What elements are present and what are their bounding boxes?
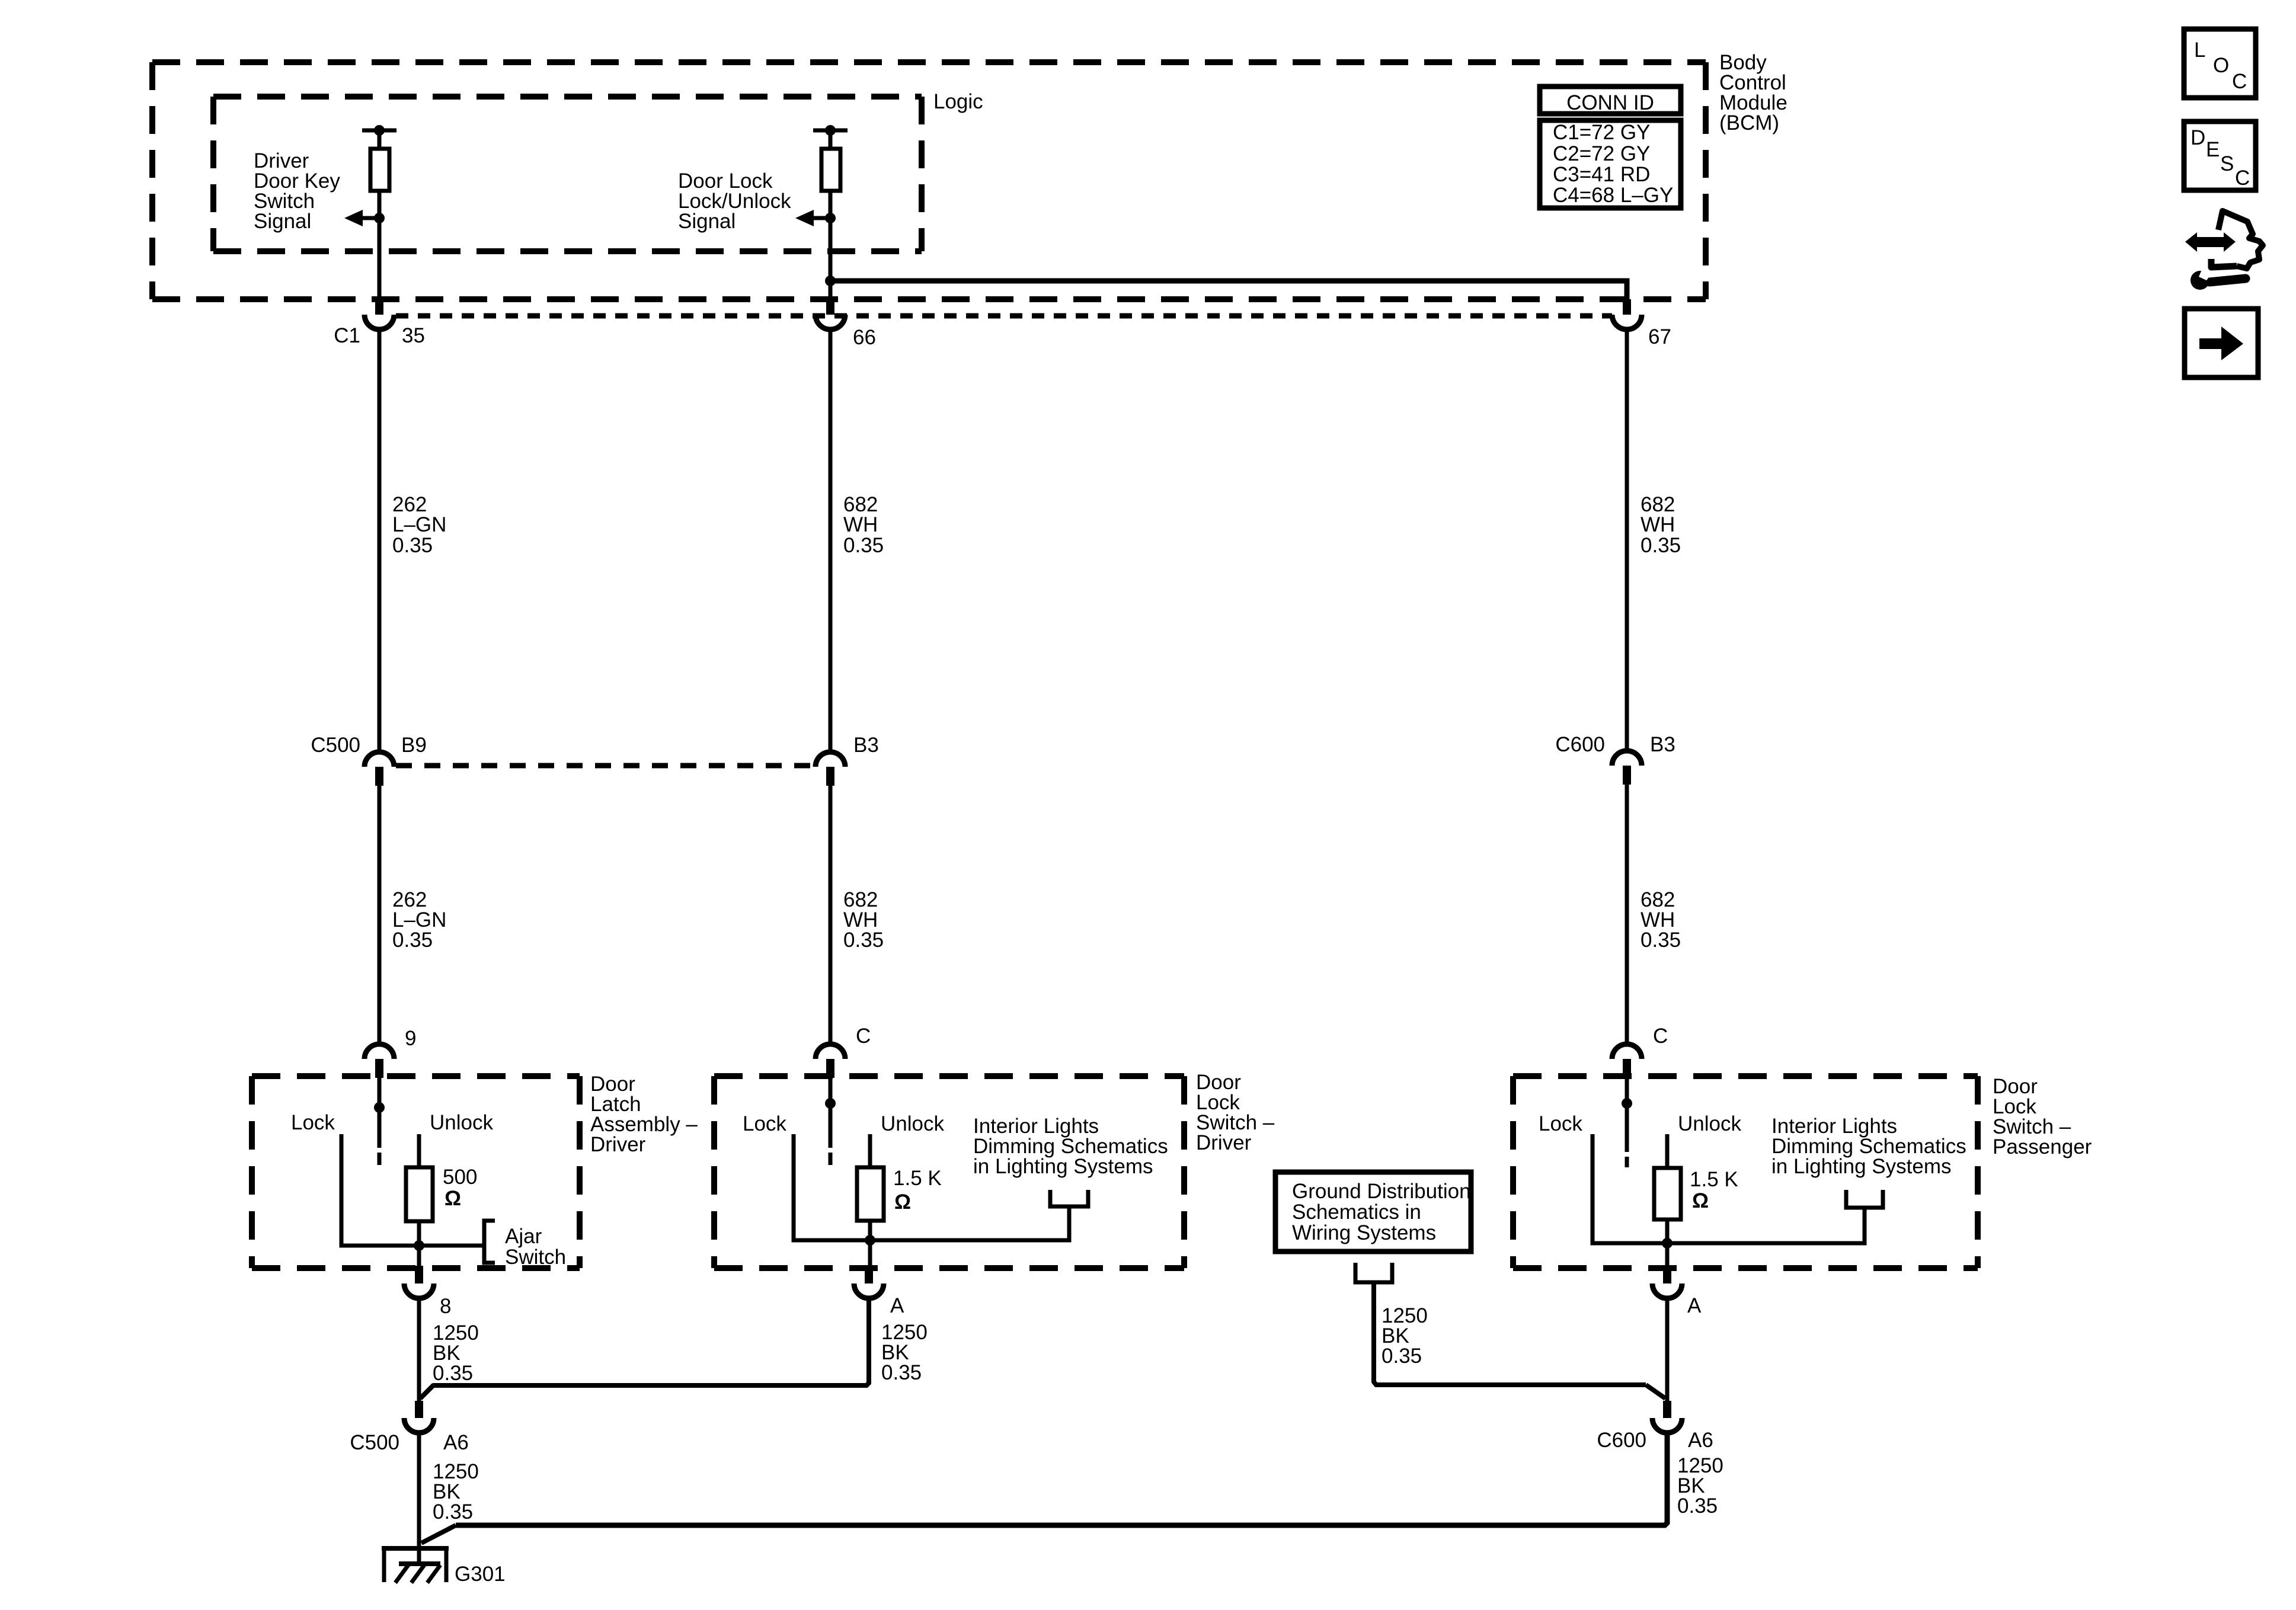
svg-text:Ω: Ω <box>894 1190 911 1214</box>
svg-text:C3=41 RD: C3=41 RD <box>1553 163 1650 186</box>
connector C500 pin A6 <box>404 1401 434 1433</box>
svg-text:Ground Distribution: Ground Distribution <box>1292 1180 1471 1203</box>
svg-text:Driver: Driver <box>1196 1131 1252 1154</box>
svg-text:0.35: 0.35 <box>1382 1345 1422 1368</box>
svg-text:8: 8 <box>440 1295 451 1318</box>
svg-text:67: 67 <box>1648 325 1671 348</box>
wire to pin 67 <box>830 281 1627 302</box>
wire 262 L-GN col1 lower <box>378 786 382 1044</box>
svg-text:A: A <box>1687 1294 1702 1317</box>
label 1.5 K ohm driver <box>893 1167 942 1214</box>
svg-text:C600: C600 <box>1597 1429 1646 1452</box>
connector C600 pin A6 <box>1652 1401 1682 1433</box>
svg-text:Driver: Driver <box>590 1133 646 1156</box>
connector passenger switch pin C <box>1612 1044 1642 1078</box>
resistor in BCM col1 <box>370 149 389 191</box>
svg-text:0.35: 0.35 <box>433 1362 473 1385</box>
switch pole driver door lock <box>825 1078 836 1165</box>
svg-text:9: 9 <box>405 1027 416 1050</box>
wire pin A passenger down <box>1665 1298 1670 1401</box>
switch pole door latch <box>374 1078 385 1165</box>
svg-text:C600: C600 <box>1555 733 1605 756</box>
label wire 262 L-GN 0.35 lower <box>392 888 446 952</box>
svg-text:C500: C500 <box>350 1431 399 1454</box>
svg-text:CONN ID: CONN ID <box>1566 91 1654 114</box>
svg-text:0.35: 0.35 <box>392 534 433 557</box>
wire unlock contact driver <box>868 1134 872 1167</box>
svg-text:Lock: Lock <box>291 1111 335 1134</box>
wire <box>829 191 833 302</box>
wire staple to bus driver <box>870 1206 1069 1240</box>
connector C1 pin 66 <box>816 299 845 329</box>
ground G301 <box>382 1548 449 1583</box>
svg-text:Ω: Ω <box>445 1187 461 1210</box>
wire pin A driver down to bus <box>433 1298 869 1385</box>
connector C500 pin B9 <box>364 752 394 786</box>
svg-text:C1: C1 <box>334 324 360 347</box>
wire diagonal join left bus <box>420 1385 434 1398</box>
icon LOC box <box>2184 29 2256 98</box>
svg-text:Schematics in: Schematics in <box>1292 1201 1421 1224</box>
box Logic inner dashed <box>213 97 922 251</box>
wire 682 WH col2 lower <box>829 786 833 1044</box>
wire resistor to junction passenger <box>1665 1219 1670 1243</box>
svg-text:35: 35 <box>402 324 425 347</box>
wire dotted connector C1 boundary <box>396 313 1612 319</box>
switch S2 door lock top bar <box>813 125 848 136</box>
svg-text:0.35: 0.35 <box>881 1361 922 1384</box>
wire dashed connector C500/B3 boundary <box>396 763 817 769</box>
label Interior Lights Dimming passenger <box>1771 1115 1966 1178</box>
svg-text:B9: B9 <box>401 734 427 757</box>
svg-text:L: L <box>2194 39 2205 62</box>
connector ground distribution staple <box>1355 1263 1392 1282</box>
label wire 682 WH 0.35 col3 upper <box>1641 493 1681 557</box>
svg-text:D: D <box>2191 126 2205 149</box>
svg-text:(BCM): (BCM) <box>1719 111 1779 135</box>
svg-text:0.35: 0.35 <box>1641 929 1681 952</box>
svg-text:in Lighting Systems: in Lighting Systems <box>973 1155 1153 1178</box>
svg-text:0.35: 0.35 <box>1641 534 1681 557</box>
svg-text:0.35: 0.35 <box>433 1500 473 1523</box>
label C500 A6 <box>350 1431 468 1454</box>
svg-text:WH: WH <box>843 513 878 536</box>
node junction driver switch <box>865 1235 875 1246</box>
switch ajar bracket <box>484 1221 495 1263</box>
wire junction to pin 8 <box>417 1246 421 1271</box>
svg-text:0.35: 0.35 <box>843 929 884 952</box>
wire resistor to junction <box>417 1221 421 1246</box>
svg-text:A6: A6 <box>443 1431 469 1454</box>
svg-text:Ω: Ω <box>1692 1189 1709 1212</box>
label Door Lock Switch Passenger <box>1993 1075 2092 1158</box>
node junction col2 arrow <box>825 213 836 223</box>
wire <box>378 130 382 149</box>
node junction col1 arrow <box>374 213 385 223</box>
arrow door lock lock/unlock signal <box>795 210 830 226</box>
label Body Control Module (BCM) <box>1719 51 1787 135</box>
resistor in BCM col2 <box>821 149 840 191</box>
icon wrench and arrow <box>2185 211 2263 290</box>
svg-text:WH: WH <box>1641 513 1675 536</box>
svg-text:C1=72 GY: C1=72 GY <box>1553 121 1650 144</box>
box Door Lock Switch Driver dashed <box>714 1076 1184 1268</box>
svg-text:B3: B3 <box>853 734 879 757</box>
arrow driver door key switch signal <box>344 210 379 226</box>
node junction latch <box>414 1240 424 1251</box>
resistor 1.5K passenger <box>1654 1168 1681 1219</box>
svg-text:1.5 K: 1.5 K <box>893 1167 942 1190</box>
wire 682 WH col2 upper <box>829 329 833 753</box>
connector C1 pin 35 <box>364 299 394 329</box>
label Interior Lights Dimming driver <box>973 1115 1168 1178</box>
connector pin 8 <box>404 1266 434 1298</box>
icon arrow box <box>2185 309 2258 377</box>
label wire 682 WH 0.35 col2 upper <box>843 493 884 557</box>
connector driver switch pin B3 <box>816 752 845 786</box>
label Ajar Switch <box>505 1225 566 1269</box>
label Door Lock Lock/Unlock Signal <box>678 169 791 233</box>
connector C600 pin B3 <box>1612 751 1642 785</box>
svg-text:Unlock: Unlock <box>430 1111 493 1134</box>
svg-text:Lock: Lock <box>1539 1112 1582 1135</box>
node junction col2 to pin 67 <box>825 276 836 286</box>
wire C500 A6 down to ground <box>417 1433 421 1565</box>
svg-text:Signal: Signal <box>678 210 736 233</box>
wire diagonal join ground <box>421 1525 456 1543</box>
svg-text:S: S <box>2220 152 2234 175</box>
table CONN ID <box>1540 87 1681 208</box>
label C600 A6 <box>1597 1429 1713 1452</box>
svg-text:Unlock: Unlock <box>1678 1112 1741 1135</box>
svg-text:C: C <box>1653 1025 1668 1048</box>
svg-text:Unlock: Unlock <box>881 1112 944 1135</box>
svg-text:0.35: 0.35 <box>843 534 884 557</box>
svg-text:0.35: 0.35 <box>392 929 433 952</box>
wire 682 WH col3 lower <box>1625 785 1629 1044</box>
connector door latch pin 9 <box>364 1044 394 1078</box>
label 500 ohm <box>443 1166 477 1210</box>
node junction passenger switch <box>1662 1238 1673 1249</box>
label wire 1250 BK 0.35 below pin A driver <box>881 1321 928 1384</box>
svg-text:O: O <box>2213 54 2229 77</box>
svg-text:C: C <box>2235 167 2250 190</box>
label wire 682 WH 0.35 col3 lower <box>1641 888 1681 952</box>
label Door Latch Assembly Driver <box>590 1073 698 1156</box>
box Door Latch Assembly Driver dashed <box>252 1076 580 1268</box>
wire unlock contact passenger <box>1665 1134 1670 1168</box>
wire <box>829 130 833 149</box>
svg-text:Logic: Logic <box>933 90 983 113</box>
wire junction to ajar switch <box>419 1244 484 1248</box>
wire resistor to junction driver <box>868 1221 872 1240</box>
wire junction to pin A passenger <box>1665 1243 1670 1271</box>
wire staple to bus passenger <box>1667 1208 1865 1243</box>
svg-text:Wiring Systems: Wiring Systems <box>1292 1221 1436 1244</box>
svg-text:Switch: Switch <box>505 1246 566 1269</box>
svg-text:C500: C500 <box>311 734 360 757</box>
connector interior lights driver staple <box>1050 1190 1088 1206</box>
svg-text:G301: G301 <box>455 1563 506 1586</box>
wire lock contact passenger <box>1593 1134 1667 1243</box>
svg-text:Ajar: Ajar <box>505 1225 542 1248</box>
label C1 35 <box>334 324 425 347</box>
icon DESC box <box>2184 121 2256 190</box>
label wire 1250 BK 0.35 below C600 A6 <box>1677 1454 1723 1518</box>
svg-text:Signal: Signal <box>254 210 311 233</box>
label wire 1250 BK 0.35 below C500 A6 <box>433 1460 479 1523</box>
box Body Control Module (BCM) outer dashed <box>152 62 1706 299</box>
connector C1 pin 67 <box>1612 299 1642 329</box>
svg-text:B3: B3 <box>1650 733 1675 756</box>
svg-text:1.5 K: 1.5 K <box>1690 1168 1738 1191</box>
wire lock contact latch <box>341 1134 419 1246</box>
label 1.5 K ohm passenger <box>1690 1168 1738 1212</box>
connector interior lights passenger staple <box>1846 1190 1883 1208</box>
svg-text:C: C <box>2232 70 2247 93</box>
resistor 1.5K driver <box>857 1167 884 1221</box>
wire <box>378 191 382 302</box>
connector pin A passenger <box>1652 1266 1682 1298</box>
wire ground distribution branch <box>1374 1282 1646 1385</box>
wire lock contact driver <box>794 1134 870 1240</box>
svg-text:0.35: 0.35 <box>1677 1494 1718 1518</box>
label wire 1250 BK 0.35 below pin 8 <box>433 1321 479 1385</box>
label wire 682 WH 0.35 col2 lower <box>843 888 884 952</box>
svg-text:in Lighting Systems: in Lighting Systems <box>1771 1155 1951 1178</box>
svg-text:C4=68 L–GY: C4=68 L–GY <box>1553 184 1673 207</box>
svg-text:Passenger: Passenger <box>1993 1135 2092 1158</box>
connector pin A driver <box>854 1266 884 1298</box>
svg-text:66: 66 <box>853 326 876 349</box>
label C500 B9 <box>311 734 426 757</box>
label C600 B3 <box>1555 733 1675 756</box>
resistor 500 ohm <box>406 1167 433 1221</box>
switch S1 driver door key top bar <box>362 125 396 136</box>
wire 682 WH col3 upper <box>1625 329 1629 751</box>
switch pole passenger door lock <box>1622 1078 1632 1167</box>
wire unlock contact latch <box>417 1134 421 1167</box>
svg-text:E: E <box>2206 138 2220 161</box>
label wire 1250 BK 0.35 ground distribution <box>1382 1304 1428 1368</box>
label Ground Distribution Schematics in Wiring Systems <box>1292 1180 1471 1244</box>
label wire 262 L-GN 0.35 upper <box>392 493 446 557</box>
box Door Lock Switch Passenger dashed <box>1513 1076 1978 1268</box>
wire diagonal join right bus <box>1646 1385 1665 1398</box>
svg-text:L–GN: L–GN <box>392 513 446 536</box>
svg-text:Lock: Lock <box>743 1112 786 1135</box>
svg-text:500: 500 <box>443 1166 477 1189</box>
svg-text:C: C <box>856 1025 871 1048</box>
label Driver Door Key Switch Signal <box>254 149 340 233</box>
wire C600 A6 down to ground bus <box>456 1433 1667 1525</box>
box Ground Distribution Schematics <box>1275 1172 1471 1251</box>
connector driver switch pin C <box>816 1044 845 1078</box>
svg-text:C2=72 GY: C2=72 GY <box>1553 142 1650 165</box>
wire pin 8 down <box>417 1298 421 1403</box>
svg-text:A: A <box>890 1294 904 1317</box>
label Door Lock Switch Driver <box>1196 1071 1275 1154</box>
wire junction to pin A driver <box>868 1240 872 1271</box>
wire 262 L-GN col1 upper <box>378 329 382 753</box>
svg-text:A6: A6 <box>1688 1429 1713 1452</box>
